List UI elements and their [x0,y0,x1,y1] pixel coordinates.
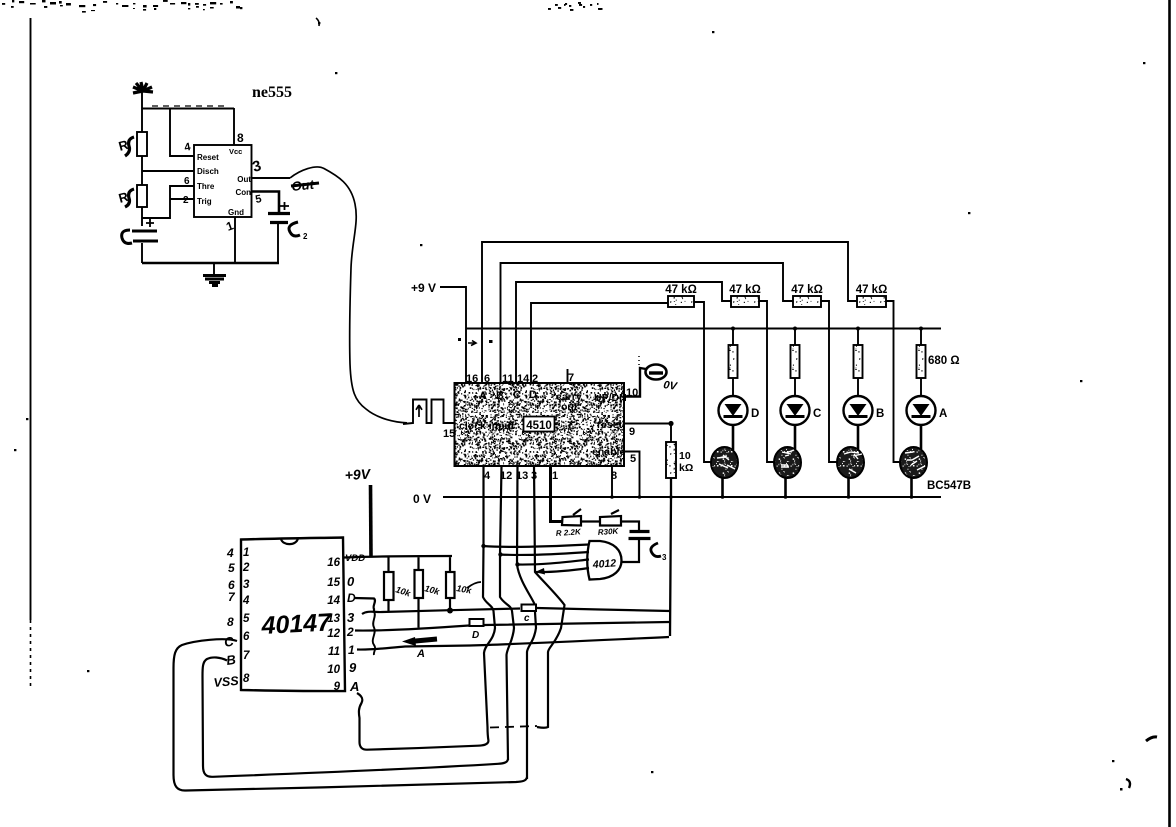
gate input 4 wire [535,568,589,572]
small artifact ticks [458,338,461,341]
svg-text:15: 15 [327,577,340,589]
wire top rail to pin 8 [142,108,234,110]
svg-text:9: 9 [629,426,635,438]
svg-text:6: 6 [243,631,250,643]
resistor 47k R5 [731,296,759,307]
tag box D [470,619,484,626]
svg-text:5: 5 [228,561,235,575]
pin stub squiggle [373,612,375,656]
resistor R2 [137,185,147,207]
wire R2 down to thre/trig node [141,207,143,226]
svg-text:clock input: clock input [459,420,515,432]
wire R1 to R2, disch node [141,156,143,185]
wire C3 to gate output [621,539,639,562]
svg-text:8: 8 [237,131,244,145]
svg-text:UP/DN: UP/DN [594,392,627,404]
wire loop B to 4510 pin12 [203,657,509,776]
clock square wave [403,400,454,425]
svg-text:C: C [813,408,821,420]
svg-text:16: 16 [327,557,340,569]
0V terminal symbol [646,365,667,380]
resistor 47k R7 [857,296,886,307]
40147 notch [281,538,298,544]
wire emitter to 0V [847,478,850,498]
wire LED to transistor collector [857,425,860,450]
wire emitter to 0V [910,478,913,498]
gate U3 4012 [587,541,621,580]
gate input 2 wire [500,552,589,555]
svg-text:3: 3 [662,553,667,562]
svg-text:B: B [876,408,884,420]
svg-text:Thre: Thre [197,182,215,191]
svg-text:enable: enable [592,446,625,458]
wire reset pin 9 to 10k [624,424,671,443]
scan mark bottom right [1146,737,1157,741]
scan artifact: right margin line [1168,0,1171,827]
svg-text:R 2.2K: R 2.2K [556,527,583,538]
wire pin11 to 47k R6 [501,263,794,383]
wire emitter to 0V [784,478,787,498]
svg-text:Reset: Reset [197,153,219,162]
svg-text:2: 2 [183,195,189,206]
wire enable pin 5 to 0V [624,452,640,498]
svg-text:47 kΩ: 47 kΩ [729,284,761,296]
svg-text:4: 4 [226,546,234,560]
svg-text:ne555: ne555 [252,84,292,101]
wire pin 8 to 0V [611,466,613,497]
svg-text:11: 11 [502,373,514,385]
wire R4 to Q1 base [694,302,713,462]
transistor Q2 BC547B [774,447,801,478]
svg-text:out: out [561,401,578,413]
svg-text:9: 9 [349,660,357,675]
svg-text:Gnd: Gnd [228,208,244,217]
wire rail to resistor R11 [920,329,922,346]
svg-text:4510: 4510 [526,420,552,432]
resistor R8 680 ohm [729,345,738,378]
svg-text:12: 12 [327,628,340,640]
svg-text:1: 1 [552,470,558,482]
+9V rail [466,328,941,330]
svg-text:1: 1 [348,643,355,657]
svg-text:7: 7 [568,372,574,384]
IC U4 40147 box [241,538,345,692]
wire Vcc to R1 [141,92,143,132]
wire 10k to 0V rail and bus join [670,478,671,636]
svg-text:6: 6 [184,176,190,187]
svg-text:D: D [472,630,479,641]
wire 555 out curve to clock [290,167,407,423]
svg-text:kΩ: kΩ [679,462,693,474]
resistor R9 680 ohm [791,345,800,378]
LED A [907,396,936,425]
wire pin D hook [354,598,375,612]
svg-text:+9V: +9V [344,466,372,483]
wire +9V feed [440,287,466,383]
svg-text:5: 5 [243,613,250,625]
40147 outside right labels [345,553,365,694]
wire rail to resistor R10 [857,329,859,346]
svg-text:15: 15 [443,428,455,440]
wire VDD rail [344,556,452,572]
resistor R11 680 ohm [917,345,926,378]
faint wire segment [490,726,537,728]
wire thre trig tie [142,186,194,218]
svg-text:47 kΩ: 47 kΩ [791,284,823,296]
capacitor C1 [132,231,158,241]
svg-text:47 kΩ: 47 kΩ [665,284,697,296]
svg-text:8: 8 [243,673,250,685]
svg-text:11: 11 [328,646,340,658]
wire LED to transistor collector [732,425,735,450]
svg-text:C: C [513,389,521,401]
svg-text:R30K: R30K [598,527,620,537]
svg-text:2: 2 [532,373,538,385]
wire resistor to LED B [857,378,859,396]
svg-text:2: 2 [346,625,354,639]
wire resistor to LED A [920,378,922,396]
svg-text:16: 16 [466,373,478,385]
wire pin6 to 47k R7 [482,242,857,383]
svg-text:Out: Out [237,175,251,184]
resistor R1 [137,132,147,156]
bus wire 3 (line A) [362,608,670,614]
svg-text:BC547B: BC547B [927,480,971,492]
bus wire 2 (line B) [355,622,669,631]
gate input 3 wire [517,560,589,565]
svg-text:47 kΩ: 47 kΩ [856,284,888,296]
wire 4510 pin12 down [500,466,514,760]
svg-text:B: B [496,390,504,402]
svg-text:A: A [416,648,425,660]
wire R6 to Q3 base [821,301,839,462]
svg-text:A: A [479,390,487,402]
svg-text:14: 14 [517,373,530,385]
resistor 10k reset [666,442,676,478]
wire loop A to 4510 pin4 [357,693,489,750]
40147 left pin numbers [242,547,250,685]
svg-text:4012: 4012 [591,557,616,571]
svg-text:3: 3 [243,579,250,591]
resistor 47k R6 [793,296,821,307]
wire IC gnd pin 1 [234,217,236,263]
svg-text:Con: Con [235,188,251,197]
wire 4510 pin3 down [534,466,565,728]
svg-text:6: 6 [484,373,490,385]
transistor Q4 BC547B [900,447,927,478]
svg-text:10: 10 [327,664,340,676]
wire R30K to C3 [621,522,639,531]
svg-text:A: A [939,408,947,420]
wire R12 bottom to bus [387,600,389,612]
resistor 47k R4 [668,296,694,307]
wire C2 to gnd rail [277,224,279,263]
svg-text:4: 4 [484,470,491,482]
svg-text:2: 2 [303,232,308,241]
wire pin1 down to R network [551,466,563,522]
wire pin2 to 47k R4 [531,303,668,383]
wire 4510 pin13 down [517,466,536,779]
LED D [719,396,748,425]
IC U1 ne555 box [194,145,252,217]
wire R2.2K to R30K [581,520,600,522]
tag box c [522,605,537,612]
resistor R12 10k [384,572,394,600]
svg-text:VDD: VDD [345,553,365,564]
resistor R 30K [600,510,621,526]
svg-text:40147: 40147 [260,608,333,640]
svg-text:0: 0 [347,574,355,589]
4510 value box [524,417,555,432]
wire loop C to 4510 pin13 [174,639,528,790]
svg-text:0 V: 0 V [413,492,431,506]
svg-text:8: 8 [227,615,234,629]
wire R5 to Q2 base [759,301,776,462]
svg-text:Trig: Trig [197,197,212,206]
capacitor C3 [629,532,651,539]
capacitor C2 [268,214,290,223]
wire con pin 5 to C2 [251,192,279,213]
wire pin14 to 47k R5 [516,282,731,383]
svg-text:D: D [751,408,759,420]
wire R14 bottom to bus [449,598,451,611]
Vcc supply star symbol [133,82,153,93]
LED C [781,396,810,425]
transistor Q1 BC547B [711,447,738,478]
40147 outside left labels [226,546,236,629]
svg-text:reset: reset [597,419,623,431]
resistor R 2.2K [562,509,581,526]
svg-text:9: 9 [334,681,341,693]
svg-text:1: 1 [243,547,249,559]
svg-text:A: A [349,679,359,694]
wire resistor to LED C [794,378,796,396]
wire C1 to gnd rail [141,243,143,263]
LED B [844,396,873,425]
svg-text:4: 4 [242,595,250,607]
bus wire 1 (line C) [357,637,669,650]
wire R13 bottom to bus [417,598,419,628]
wire LED to transistor collector [794,425,797,450]
svg-text:14: 14 [327,595,340,607]
resistor R13 10k [415,570,424,598]
wire R7 to Q4 base [886,301,902,462]
wire UP/DN pin 10 to 0V [624,368,646,397]
ground symbol [213,263,215,274]
svg-text:VSS: VSS [213,674,240,690]
wire LED to transistor collector [920,425,923,450]
svg-text:5: 5 [630,453,636,465]
IC U2 4510 counter box [455,383,625,466]
pin 7 stub carry out [567,369,569,383]
gate input 1 wire [483,545,589,547]
40147 right pin numbers [327,557,340,693]
0V rail [443,496,941,498]
node A arrow marker [410,639,437,642]
svg-text:Vcc: Vcc [229,147,242,156]
svg-text:3: 3 [347,610,355,625]
wire +9V bold feed [369,485,373,557]
resistor R14 10k [446,572,455,598]
svg-text:+9 V: +9 V [411,281,436,295]
resistor R10 680 ohm [854,345,863,378]
wire resistor to LED D [732,378,734,396]
scan artifact: left margin line [30,18,32,620]
svg-text:13: 13 [327,613,340,625]
svg-text:D: D [529,389,537,401]
svg-text:10: 10 [679,450,691,462]
svg-text:Disch: Disch [197,167,219,176]
wire 4510 pin4 down [483,466,495,741]
svg-text:2: 2 [242,562,250,574]
svg-text:c: c [524,613,530,624]
transistor Q3 BC547B [837,447,864,478]
svg-text:680 Ω: 680 Ω [928,355,960,367]
wire rail to resistor R8 [732,329,734,346]
wire rail to resistor R9 [794,329,796,346]
gnd rail bottom of 555 [142,262,279,264]
wire disch node to IC [142,170,194,172]
svg-text:7: 7 [243,650,250,662]
wire reset feed [170,109,194,156]
wire out pin 3 [251,177,290,179]
wire emitter to 0V [721,478,724,498]
